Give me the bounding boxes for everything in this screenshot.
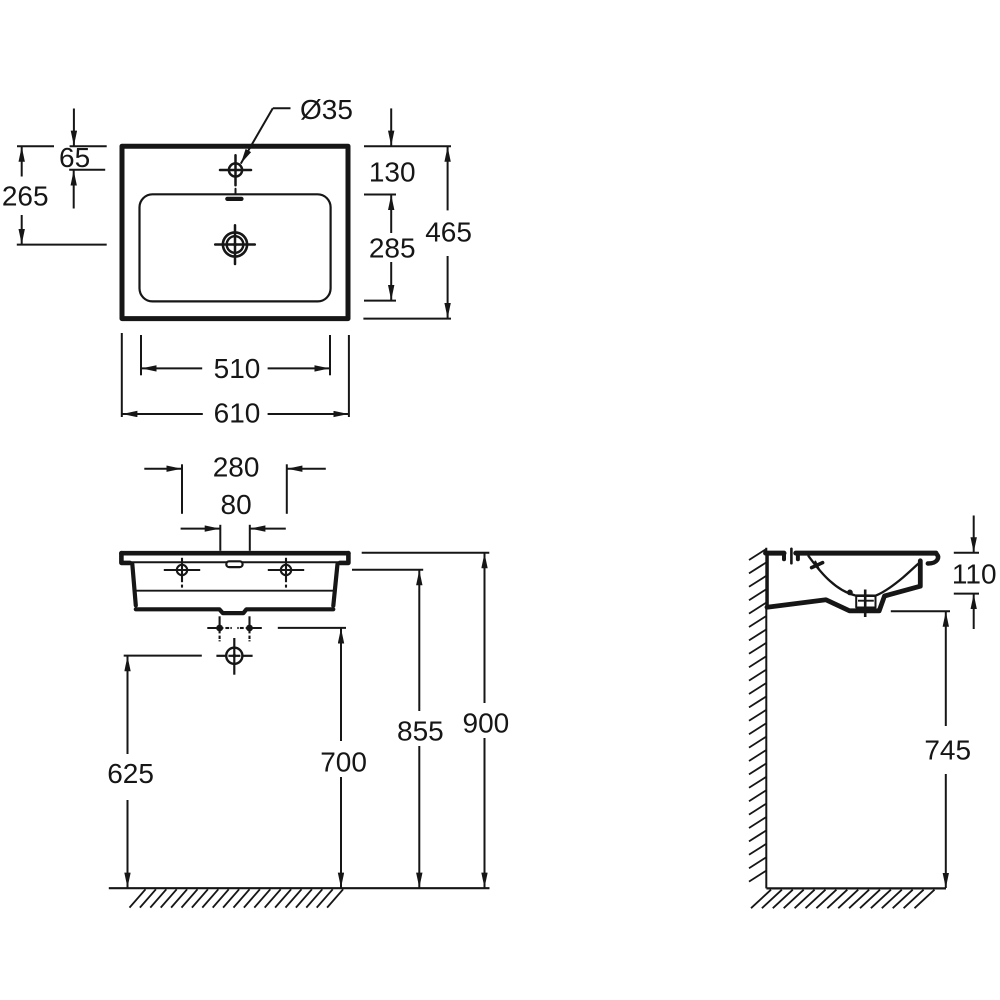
svg-text:900: 900	[463, 708, 510, 739]
svg-text:65: 65	[59, 142, 90, 173]
svg-text:80: 80	[221, 489, 252, 520]
svg-text:465: 465	[425, 217, 472, 248]
svg-text:265: 265	[2, 181, 49, 212]
svg-text:855: 855	[397, 715, 444, 746]
svg-text:510: 510	[214, 353, 261, 384]
svg-text:285: 285	[369, 233, 416, 264]
svg-text:280: 280	[213, 452, 260, 483]
svg-text:700: 700	[320, 747, 367, 778]
svg-text:610: 610	[214, 398, 261, 429]
svg-text:Ø35: Ø35	[300, 94, 353, 125]
svg-text:130: 130	[369, 157, 416, 188]
svg-text:745: 745	[924, 735, 971, 766]
svg-text:625: 625	[107, 758, 154, 789]
svg-text:110: 110	[952, 559, 997, 590]
